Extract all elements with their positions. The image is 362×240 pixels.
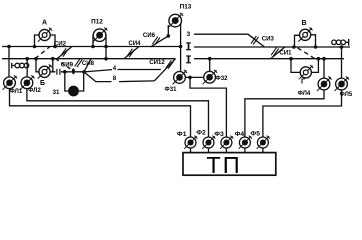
svg-text:А: А: [42, 20, 47, 27]
svg-text:СИ3: СИ3: [262, 35, 275, 42]
wire diagonal with CI12: [154, 59, 175, 81]
lamp FL5: [335, 76, 350, 91]
wire track 8 branch: [84, 72, 154, 82]
lamp F3: [220, 136, 233, 149]
insulated joint glyph line2: [186, 56, 191, 63]
wire diagonal with CI4: [124, 47, 139, 59]
svg-text:СИ1: СИ1: [279, 50, 292, 57]
svg-text:ФЛ4: ФЛ4: [298, 90, 311, 97]
svg-text:П12: П12: [91, 19, 103, 26]
svg-text:ФЛ1: ФЛ1: [10, 88, 23, 95]
wire FL1 drop from line1: [8, 47, 10, 78]
insulated joint glyph line1: [186, 43, 191, 50]
svg-text:СИ12: СИ12: [149, 59, 165, 66]
svg-text:Г: Г: [301, 78, 305, 85]
wire track line 1 right: [194, 46, 350, 48]
wire FL5 drop from line1 right: [341, 47, 343, 79]
wire diagonal with CI1: [271, 47, 285, 59]
section insulator CI1: [271, 48, 279, 56]
section insulator CI12: [166, 60, 174, 68]
bracket A: [35, 35, 56, 47]
section insulator CI2: [61, 48, 69, 56]
bracket V(Cyr В): [295, 35, 316, 47]
svg-text:СИ6: СИ6: [143, 32, 156, 39]
disconnector G: [299, 65, 313, 79]
wire F32 drop: [209, 59, 211, 72]
wire track 4 branch: [84, 70, 161, 72]
wire track line 2 left: [2, 58, 176, 60]
wire earthing loop Z1: [65, 72, 84, 91]
bracket G(Cyr Г): [291, 59, 318, 73]
svg-text:Ф4: Ф4: [235, 131, 245, 138]
svg-text:СИ2: СИ2: [54, 41, 67, 48]
svg-text:Ф5: Ф5: [250, 131, 260, 138]
wire track line 1 left: [2, 46, 181, 48]
section insulator CI8: [75, 59, 83, 67]
switch blade V (open): [298, 48, 315, 59]
svg-text:СИ9: СИ9: [61, 61, 74, 68]
wire track 3 branch: [194, 34, 265, 47]
svg-text:Ф3: Ф3: [214, 131, 224, 138]
wire FL4 feeder route to F4: [245, 89, 324, 152]
section insulator CI6: [152, 37, 160, 45]
section insulator CI4: [127, 49, 135, 57]
wire diagonal with CI8: [84, 59, 91, 72]
svg-text:В: В: [301, 20, 306, 27]
wire FL2 feeder route to F2: [27, 88, 209, 152]
svg-text:Ф1: Ф1: [177, 131, 187, 138]
lamp F1: [184, 136, 197, 149]
wire P13 right leg down to F31: [180, 22, 182, 72]
lamp F5: [257, 136, 270, 149]
lamp F32: [203, 70, 218, 85]
insulator lens on stub: [72, 68, 75, 74]
box TP substation: [183, 153, 276, 176]
svg-text:Ф2: Ф2: [196, 130, 206, 137]
node dots: [7, 45, 11, 49]
insulating joint marks on stub: [57, 69, 60, 75]
lamp FL2: [20, 75, 35, 90]
disconnector A: [38, 28, 52, 42]
svg-text:ТП: ТП: [206, 152, 241, 178]
bracket B(Cyr Б): [36, 59, 53, 72]
svg-text:СИ8: СИ8: [82, 60, 95, 67]
switch P12: [92, 27, 107, 42]
wire P13 left leg: [167, 25, 169, 36]
switch blade B (open): [56, 59, 74, 71]
svg-text:ФЛ2: ФЛ2: [28, 87, 41, 94]
wire FL2 drop from line2: [26, 59, 28, 78]
lamp FL4: [317, 76, 332, 91]
wire diagonal with CI6: [150, 36, 168, 47]
svg-text:ФЛ5: ФЛ5: [340, 91, 353, 98]
lamp F4: [239, 136, 252, 149]
wire track line 2 right: [194, 58, 344, 60]
earth electrode Z1: [68, 86, 79, 97]
svg-text:31: 31: [53, 89, 60, 96]
svg-text:3: 3: [186, 31, 190, 38]
svg-text:Б: Б: [40, 80, 45, 87]
wire diagonal with CI2: [57, 47, 72, 59]
svg-text:П13: П13: [180, 4, 192, 11]
anchor rings left: [12, 63, 15, 69]
svg-text:Ф32: Ф32: [216, 75, 229, 82]
switch blade A (open): [35, 47, 50, 59]
svg-text:СИ4: СИ4: [128, 40, 141, 47]
switch P13: [168, 13, 183, 28]
section insulator CI3: [251, 36, 259, 44]
disconnector V: [298, 27, 312, 41]
bracket P12: [93, 35, 106, 59]
lamp F31: [173, 70, 188, 85]
svg-text:8: 8: [113, 75, 117, 82]
svg-text:4: 4: [113, 65, 117, 72]
wire FL1 feeder route to F1: [10, 88, 191, 152]
wire FL5 feeder route to F5: [263, 89, 342, 152]
svg-text:Ф31: Ф31: [165, 86, 178, 93]
wire FL4 drop from line2 right: [323, 59, 325, 79]
anchor rings right: [332, 40, 337, 45]
wire lamp F31-F32 link and feeder to F3: [185, 77, 226, 152]
disconnector B: [38, 64, 52, 78]
lamp FL1: [3, 75, 18, 90]
wire CI9 stub: [50, 71, 84, 73]
lamp F2: [202, 136, 215, 149]
